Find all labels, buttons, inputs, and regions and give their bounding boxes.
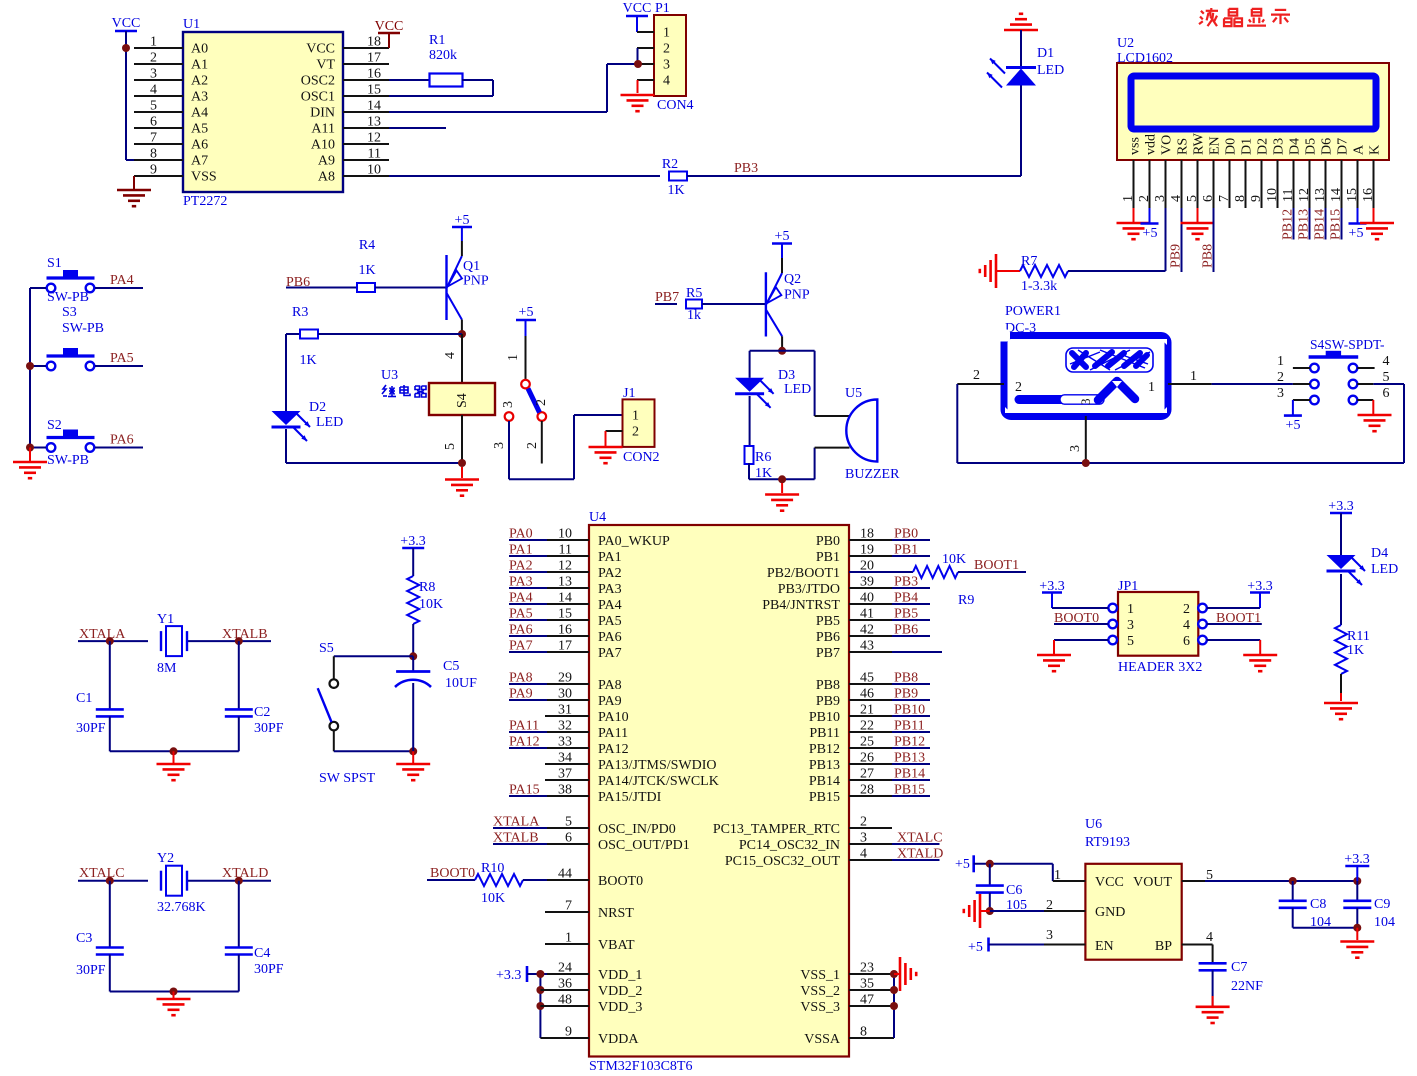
svg-text:RW: RW <box>1192 132 1207 155</box>
svg-text:A7: A7 <box>191 154 208 169</box>
svg-text:R6: R6 <box>755 450 771 465</box>
svg-text:C4: C4 <box>254 946 270 961</box>
svg-text:PT2272: PT2272 <box>183 194 227 209</box>
svg-text:A5: A5 <box>191 122 208 137</box>
svg-text:OSC2: OSC2 <box>301 74 335 89</box>
svg-text:S4SW-SPDT-: S4SW-SPDT- <box>1310 337 1385 352</box>
svg-text:PB10: PB10 <box>809 710 840 725</box>
svg-text:PA5: PA5 <box>598 614 622 629</box>
svg-text:LCD1602: LCD1602 <box>1117 51 1173 66</box>
svg-text:5: 5 <box>1383 370 1390 385</box>
svg-text:1K: 1K <box>299 353 316 368</box>
svg-text:U1: U1 <box>183 17 200 32</box>
svg-text:PB7: PB7 <box>816 646 840 661</box>
svg-text:1: 1 <box>1121 195 1136 202</box>
svg-text:PA3: PA3 <box>509 575 533 590</box>
svg-text:P1: P1 <box>655 1 670 16</box>
svg-text:BP: BP <box>1155 939 1172 954</box>
svg-text:A9: A9 <box>318 154 335 169</box>
svg-text:18: 18 <box>367 35 381 50</box>
svg-text:BOOT0: BOOT0 <box>598 874 643 889</box>
svg-text:1: 1 <box>663 26 670 41</box>
svg-text:PA11: PA11 <box>598 726 628 741</box>
svg-text:PA14/JTCK/SWCLK: PA14/JTCK/SWCLK <box>598 774 719 789</box>
svg-text:16: 16 <box>367 67 381 82</box>
svg-text:PA15: PA15 <box>509 783 540 798</box>
svg-text:820k: 820k <box>429 48 457 63</box>
svg-text:PB13: PB13 <box>894 751 925 766</box>
svg-text:SW SPST: SW SPST <box>319 771 376 786</box>
svg-text:4: 4 <box>1206 930 1213 945</box>
svg-text:10: 10 <box>1265 188 1280 202</box>
svg-text:PB5: PB5 <box>894 607 918 622</box>
svg-text:R8: R8 <box>419 580 435 595</box>
svg-text:6: 6 <box>1383 386 1390 401</box>
svg-text:C9: C9 <box>1374 897 1390 912</box>
svg-text:3: 3 <box>1277 386 1284 401</box>
svg-text:A6: A6 <box>191 138 208 153</box>
svg-text:D1: D1 <box>1037 46 1054 61</box>
svg-text:+5: +5 <box>968 940 983 955</box>
svg-text:PC15_OSC32_OUT: PC15_OSC32_OUT <box>725 854 841 869</box>
svg-text:R11: R11 <box>1347 629 1370 644</box>
svg-text:15: 15 <box>1345 188 1360 202</box>
svg-text:6: 6 <box>150 115 157 130</box>
svg-text:vdd: vdd <box>1144 134 1159 155</box>
svg-text:C2: C2 <box>254 705 270 720</box>
svg-text:XTALA: XTALA <box>79 627 126 642</box>
svg-text:LED: LED <box>784 382 811 397</box>
svg-text:8: 8 <box>150 147 157 162</box>
svg-text:11: 11 <box>368 147 381 162</box>
svg-text:RT9193: RT9193 <box>1085 835 1130 850</box>
svg-text:3: 3 <box>1127 618 1134 633</box>
svg-text:Y1: Y1 <box>157 612 174 627</box>
svg-text:PNP: PNP <box>463 274 489 289</box>
svg-text:2: 2 <box>1277 370 1284 385</box>
svg-text:XTALA: XTALA <box>493 815 540 830</box>
svg-text:VSS_1: VSS_1 <box>800 968 840 983</box>
svg-text:D3: D3 <box>1272 138 1287 155</box>
svg-text:PB3/JTDO: PB3/JTDO <box>778 582 840 597</box>
svg-text:D7: D7 <box>1336 138 1351 155</box>
svg-text:30PF: 30PF <box>254 721 284 736</box>
svg-text:D0: D0 <box>1224 138 1239 155</box>
svg-text:PB1: PB1 <box>816 550 840 565</box>
svg-text:1: 1 <box>1054 868 1061 883</box>
svg-text:PB4: PB4 <box>894 591 918 606</box>
svg-text:D6: D6 <box>1320 138 1335 155</box>
svg-text:A11: A11 <box>311 122 335 137</box>
svg-text:R10: R10 <box>481 861 504 876</box>
svg-text:PA0: PA0 <box>509 527 533 542</box>
svg-text:PA1: PA1 <box>598 550 622 565</box>
svg-text:POWER1: POWER1 <box>1005 304 1061 319</box>
svg-text:22NF: 22NF <box>1231 979 1263 994</box>
svg-text:A: A <box>1352 144 1367 155</box>
svg-text:PB6: PB6 <box>816 630 840 645</box>
svg-text:J1: J1 <box>623 386 635 401</box>
svg-text:PA2: PA2 <box>509 559 533 574</box>
svg-text:3: 3 <box>1046 928 1053 943</box>
svg-text:D2: D2 <box>309 400 326 415</box>
svg-text:A3: A3 <box>191 90 208 105</box>
svg-text:2: 2 <box>525 442 540 449</box>
svg-text:OSC_IN/PD0: OSC_IN/PD0 <box>598 822 676 837</box>
svg-text:PA6: PA6 <box>509 623 533 638</box>
svg-text:6: 6 <box>1201 195 1216 202</box>
svg-text:15: 15 <box>367 83 381 98</box>
svg-text:5: 5 <box>1206 868 1213 883</box>
svg-text:SW-PB: SW-PB <box>47 453 89 468</box>
svg-text:PA12: PA12 <box>598 742 629 757</box>
svg-text:PB2/BOOT1: PB2/BOOT1 <box>767 566 840 581</box>
svg-text:PB5: PB5 <box>816 614 840 629</box>
svg-text:9: 9 <box>150 163 157 178</box>
svg-text:16: 16 <box>1361 188 1376 202</box>
svg-text:1: 1 <box>1190 369 1197 384</box>
svg-text:U2: U2 <box>1117 36 1134 51</box>
svg-text:D1: D1 <box>1240 138 1255 155</box>
svg-text:PB15: PB15 <box>894 783 925 798</box>
svg-text:3: 3 <box>1153 195 1168 202</box>
svg-text:XTALB: XTALB <box>222 627 268 642</box>
svg-text:C8: C8 <box>1310 897 1326 912</box>
svg-text:HEADER 3X2: HEADER 3X2 <box>1118 660 1202 675</box>
svg-text:R2: R2 <box>662 157 678 172</box>
svg-text:PB0: PB0 <box>894 527 918 542</box>
svg-text:R1: R1 <box>429 33 445 48</box>
svg-text:3: 3 <box>663 58 670 73</box>
svg-text:2: 2 <box>1015 380 1022 395</box>
svg-text:BOOT0: BOOT0 <box>430 866 475 881</box>
svg-text:PB7: PB7 <box>655 290 679 305</box>
svg-text:XTALB: XTALB <box>493 831 539 846</box>
svg-text:1: 1 <box>1148 380 1155 395</box>
svg-text:PB3: PB3 <box>894 575 918 590</box>
svg-text:EN: EN <box>1095 939 1114 954</box>
svg-text:S4: S4 <box>455 393 470 408</box>
svg-text:VCC: VCC <box>112 16 141 31</box>
svg-text:U3: U3 <box>381 368 398 383</box>
svg-text:XTALC: XTALC <box>79 866 125 881</box>
svg-text:32.768K: 32.768K <box>157 900 206 915</box>
svg-text:LED: LED <box>316 415 343 430</box>
svg-text:+5: +5 <box>1143 226 1158 241</box>
svg-text:2: 2 <box>1137 195 1152 202</box>
svg-text:PB15: PB15 <box>809 790 840 805</box>
svg-text:R5: R5 <box>686 286 702 301</box>
svg-text:PA4: PA4 <box>110 273 134 288</box>
svg-text:PA3: PA3 <box>598 582 622 597</box>
svg-text:2: 2 <box>150 51 157 66</box>
svg-text:+3.3: +3.3 <box>496 968 521 983</box>
svg-text:A8: A8 <box>318 170 335 185</box>
svg-text:PA15/JTDI: PA15/JTDI <box>598 790 662 805</box>
svg-text:OSC1: OSC1 <box>301 90 335 105</box>
svg-text:PA4: PA4 <box>509 591 533 606</box>
svg-text:XTALC: XTALC <box>897 831 943 846</box>
svg-text:LED: LED <box>1037 63 1064 78</box>
svg-text:VO: VO <box>1160 135 1175 155</box>
svg-text:SW-PB: SW-PB <box>47 290 89 305</box>
svg-text:PB0: PB0 <box>816 534 840 549</box>
svg-text:PB9: PB9 <box>894 687 918 702</box>
svg-text:PB14: PB14 <box>1313 209 1328 240</box>
svg-text:4: 4 <box>663 74 670 89</box>
svg-text:PB11: PB11 <box>894 719 925 734</box>
svg-text:A10: A10 <box>311 138 335 153</box>
svg-text:VT: VT <box>316 58 335 73</box>
svg-text:PA2: PA2 <box>598 566 622 581</box>
svg-text:7: 7 <box>150 131 157 146</box>
svg-text:VDD_2: VDD_2 <box>598 984 642 999</box>
svg-text:STM32F103C8T6: STM32F103C8T6 <box>589 1059 692 1071</box>
svg-text:10: 10 <box>367 163 381 178</box>
svg-text:13: 13 <box>1313 188 1328 202</box>
svg-text:+5: +5 <box>1286 418 1301 433</box>
svg-text:3: 3 <box>1078 399 1093 406</box>
svg-text:R9: R9 <box>958 593 974 608</box>
svg-text:S2: S2 <box>47 418 62 433</box>
svg-text:3: 3 <box>501 401 516 408</box>
svg-text:NRST: NRST <box>598 906 634 921</box>
svg-text:SW-PB: SW-PB <box>62 321 104 336</box>
svg-text:A1: A1 <box>191 58 208 73</box>
svg-text:VDD_3: VDD_3 <box>598 1000 642 1015</box>
svg-text:K: K <box>1368 145 1383 155</box>
svg-text:4: 4 <box>1169 195 1184 202</box>
svg-text:VOUT: VOUT <box>1133 875 1172 890</box>
svg-text:8M: 8M <box>157 661 177 676</box>
svg-text:D5: D5 <box>1304 138 1319 155</box>
svg-text:1: 1 <box>150 35 157 50</box>
svg-text:D4: D4 <box>1371 546 1388 561</box>
svg-text:10K: 10K <box>481 891 505 906</box>
svg-text:4: 4 <box>1183 618 1190 633</box>
svg-text:13: 13 <box>367 115 381 130</box>
svg-text:C5: C5 <box>443 659 459 674</box>
svg-text:PA11: PA11 <box>509 719 539 734</box>
svg-text:C3: C3 <box>76 931 92 946</box>
svg-text:PA0_WKUP: PA0_WKUP <box>598 534 670 549</box>
svg-text:C6: C6 <box>1006 883 1022 898</box>
svg-text:PB11: PB11 <box>809 726 840 741</box>
svg-text:PB12: PB12 <box>809 742 840 757</box>
svg-text:U5: U5 <box>845 386 862 401</box>
svg-text:30PF: 30PF <box>76 963 106 978</box>
svg-text:VSS_2: VSS_2 <box>800 984 840 999</box>
svg-text:VDD_1: VDD_1 <box>598 968 642 983</box>
svg-text:1-3.3k: 1-3.3k <box>1021 279 1057 294</box>
svg-text:11: 11 <box>1281 189 1296 202</box>
svg-text:VCC: VCC <box>623 1 652 16</box>
svg-text:PC13_TAMPER_RTC: PC13_TAMPER_RTC <box>713 822 840 837</box>
svg-text:2: 2 <box>1046 898 1053 913</box>
svg-text:2: 2 <box>1183 602 1190 617</box>
svg-text:9: 9 <box>1249 195 1264 202</box>
svg-text:+5: +5 <box>1349 226 1364 241</box>
svg-text:1: 1 <box>506 354 521 361</box>
svg-text:+5: +5 <box>775 229 790 244</box>
svg-text:PB4/JNTRST: PB4/JNTRST <box>762 598 840 613</box>
svg-text:1: 1 <box>632 409 639 424</box>
svg-text:10UF: 10UF <box>445 676 477 691</box>
svg-text:PB8: PB8 <box>1201 244 1216 268</box>
svg-text:PB9: PB9 <box>816 694 840 709</box>
svg-text:LED: LED <box>1371 562 1398 577</box>
svg-text:Q2: Q2 <box>784 272 801 287</box>
svg-text:1K: 1K <box>358 263 375 278</box>
svg-text:EN: EN <box>1208 136 1223 155</box>
svg-text:A4: A4 <box>191 106 208 121</box>
svg-text:PB1: PB1 <box>894 543 918 558</box>
svg-text:30PF: 30PF <box>76 721 106 736</box>
svg-text:VBAT: VBAT <box>598 938 635 953</box>
svg-text:PB10: PB10 <box>894 703 925 718</box>
svg-text:CON4: CON4 <box>657 98 694 113</box>
svg-text:4: 4 <box>150 83 157 98</box>
svg-text:PB6: PB6 <box>894 623 918 638</box>
svg-text:OSC_OUT/PD1: OSC_OUT/PD1 <box>598 838 690 853</box>
svg-text:VSS: VSS <box>191 170 217 185</box>
svg-text:12: 12 <box>367 131 381 146</box>
svg-text:D3: D3 <box>778 368 795 383</box>
svg-text:104: 104 <box>1374 915 1395 930</box>
svg-text:3: 3 <box>150 67 157 82</box>
svg-text:PA13/JTMS/SWDIO: PA13/JTMS/SWDIO <box>598 758 717 773</box>
svg-text:4: 4 <box>443 352 458 359</box>
svg-text:6: 6 <box>1183 634 1190 649</box>
svg-text:PB3: PB3 <box>734 161 758 176</box>
svg-text:VSS_3: VSS_3 <box>800 1000 840 1015</box>
svg-text:2: 2 <box>534 399 549 406</box>
svg-text:Y2: Y2 <box>157 851 174 866</box>
svg-text:A2: A2 <box>191 74 208 89</box>
svg-text:D4: D4 <box>1288 138 1303 155</box>
svg-text:XTALD: XTALD <box>897 847 943 862</box>
svg-text:2: 2 <box>973 368 980 383</box>
svg-text:2: 2 <box>632 425 639 440</box>
svg-text:Q1: Q1 <box>463 259 480 274</box>
svg-text:PA8: PA8 <box>598 678 622 693</box>
svg-text:PB13: PB13 <box>809 758 840 773</box>
svg-text:+5: +5 <box>519 305 534 320</box>
svg-text:PNP: PNP <box>784 288 810 303</box>
svg-text:PB15: PB15 <box>1329 209 1344 240</box>
svg-text:PA9: PA9 <box>598 694 622 709</box>
svg-text:PA6: PA6 <box>110 433 134 448</box>
svg-text:PA7: PA7 <box>598 646 622 661</box>
svg-text:5: 5 <box>1127 634 1134 649</box>
svg-text:7: 7 <box>1217 195 1232 202</box>
svg-text:D2: D2 <box>1256 138 1271 155</box>
svg-text:17: 17 <box>367 51 381 66</box>
svg-text:CON2: CON2 <box>623 450 660 465</box>
svg-text:10K: 10K <box>942 552 966 567</box>
svg-text:S1: S1 <box>47 256 62 271</box>
svg-text:2: 2 <box>663 42 670 57</box>
svg-text:5: 5 <box>1185 195 1200 202</box>
svg-text:U6: U6 <box>1085 817 1102 832</box>
svg-text:PA7: PA7 <box>509 639 533 654</box>
svg-text:PA1: PA1 <box>509 543 533 558</box>
svg-text:PB9: PB9 <box>1169 244 1184 268</box>
svg-text:BUZZER: BUZZER <box>845 467 900 482</box>
svg-text:vss: vss <box>1128 137 1143 155</box>
svg-text:BOOT1: BOOT1 <box>974 558 1019 573</box>
svg-text:1: 1 <box>1127 602 1134 617</box>
svg-text:JP1: JP1 <box>1118 579 1138 594</box>
svg-text:VSSA: VSSA <box>804 1032 841 1047</box>
svg-text:PC14_OSC32_IN: PC14_OSC32_IN <box>739 838 840 853</box>
svg-text:R4: R4 <box>359 238 375 253</box>
svg-text:PA8: PA8 <box>509 671 533 686</box>
svg-text:R3: R3 <box>292 305 308 320</box>
svg-text:DIN: DIN <box>310 106 335 121</box>
svg-text:1K: 1K <box>1347 643 1364 658</box>
svg-text:10K: 10K <box>419 597 443 612</box>
svg-text:VCC: VCC <box>1095 875 1124 890</box>
svg-text:PA6: PA6 <box>598 630 622 645</box>
svg-text:PB12: PB12 <box>1281 209 1296 240</box>
svg-text:5: 5 <box>150 99 157 114</box>
svg-text:XTALD: XTALD <box>222 866 268 881</box>
svg-text:R7: R7 <box>1021 254 1037 269</box>
svg-text:PB14: PB14 <box>894 767 925 782</box>
svg-text:PB8: PB8 <box>894 671 918 686</box>
svg-text:PB12: PB12 <box>894 735 925 750</box>
svg-text:GND: GND <box>1095 905 1125 920</box>
svg-text:PA12: PA12 <box>509 735 540 750</box>
svg-text:14: 14 <box>367 99 381 114</box>
svg-text:4: 4 <box>1383 354 1390 369</box>
svg-text:30PF: 30PF <box>254 962 284 977</box>
svg-text:PB13: PB13 <box>1297 209 1312 240</box>
svg-text:PA4: PA4 <box>598 598 622 613</box>
svg-text:PA5: PA5 <box>509 607 533 622</box>
svg-text:PA10: PA10 <box>598 710 629 725</box>
svg-text:1K: 1K <box>667 183 684 198</box>
svg-text:S3: S3 <box>62 305 77 320</box>
svg-text:A0: A0 <box>191 42 208 57</box>
svg-text:S5: S5 <box>319 641 334 656</box>
svg-text:PB14: PB14 <box>809 774 840 789</box>
svg-text:U4: U4 <box>589 510 606 525</box>
svg-text:VDDA: VDDA <box>598 1032 639 1047</box>
svg-text:8: 8 <box>1233 195 1248 202</box>
svg-text:+5: +5 <box>955 857 970 872</box>
svg-text:1: 1 <box>1277 354 1284 369</box>
svg-text:RS: RS <box>1176 138 1191 155</box>
svg-text:12: 12 <box>1297 188 1312 202</box>
svg-text:PA5: PA5 <box>110 351 134 366</box>
svg-text:14: 14 <box>1329 188 1344 202</box>
svg-text:VCC: VCC <box>306 42 335 57</box>
svg-text:PA9: PA9 <box>509 687 533 702</box>
svg-text:C1: C1 <box>76 691 92 706</box>
svg-text:1k: 1k <box>687 308 701 323</box>
svg-text:C7: C7 <box>1231 960 1247 975</box>
svg-text:5: 5 <box>443 443 458 450</box>
svg-text:PB8: PB8 <box>816 678 840 693</box>
svg-text:3: 3 <box>1068 445 1083 452</box>
svg-text:3: 3 <box>492 442 507 449</box>
